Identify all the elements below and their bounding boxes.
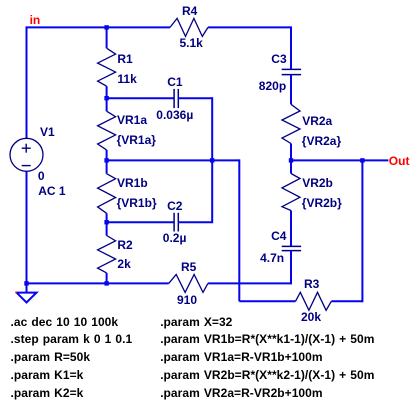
value {VR1b} (117, 197, 157, 209)
wire left rail upper (26, 26, 28, 138)
resistor R1 (98, 27, 116, 98)
value {VR1a} (117, 134, 156, 146)
wire mid node to bridge corner (107, 159, 240, 161)
directive left 2: .step param k 0 1 0.1 (11, 333, 133, 345)
wire left of resistor R3 (239, 300, 295, 302)
wire C1 node down to mid junction (211, 97, 213, 160)
label C2 (167, 200, 182, 212)
net label in (30, 14, 41, 26)
junction R1 / C1 (104, 96, 108, 100)
directive left 3: .param R=50k (11, 351, 91, 363)
label R1 (117, 53, 132, 65)
capacitor C1 (174, 89, 178, 108)
junction top rail / R1 (104, 25, 108, 29)
wire right of resistor R4 (208, 26, 291, 28)
value {VR2b} (302, 197, 342, 209)
resistor VR1b (98, 160, 116, 222)
value 910 (177, 294, 197, 306)
label C4 (271, 230, 286, 242)
resistor R5 (169, 274, 208, 292)
label V1 (40, 126, 55, 138)
wire right of resistor R3 (331, 300, 362, 302)
value AC 1 (38, 185, 65, 197)
label C3 (271, 53, 286, 65)
label R2 (117, 239, 132, 251)
label VR2b (302, 177, 333, 189)
resistor R4 (170, 18, 208, 36)
junction VR2a / VR2b (289, 158, 293, 162)
wire C2 left (107, 221, 175, 223)
junction ground (24, 281, 28, 285)
directive left 1: .ac dec 10 10 100k (11, 316, 119, 328)
voltage source V1 (10, 138, 43, 171)
wire C2 right (178, 221, 212, 223)
junction VR1a / VR1b (104, 158, 108, 162)
resistor VR1a (98, 98, 116, 160)
label VR1a (117, 114, 147, 126)
value 20k (301, 311, 321, 323)
wire left of resistor R5 (27, 282, 169, 284)
value 5.1k (180, 37, 203, 49)
label VR1b (117, 177, 148, 189)
directive right 2: .param VR1b=R*(X**k1-1)/(X-1) + 50m (160, 333, 374, 345)
value 2k (117, 258, 130, 270)
wire left rail lower (26, 171, 28, 283)
wire C2 node up to mid junction (211, 160, 213, 223)
wire bridge vertical (238, 159, 240, 301)
wire Out node (291, 159, 388, 161)
wire left of resistor R4 (27, 26, 171, 28)
wire right of resistor R5 (208, 282, 291, 284)
directive left 5: .param K2=k (11, 387, 84, 399)
value 4.7n (260, 252, 284, 264)
capacitor C4 (282, 246, 301, 250)
value 820p (259, 80, 286, 92)
label R4 (182, 5, 197, 17)
label C1 (167, 76, 182, 88)
directive right 5: .param VR2a=R-VR2b+100m (160, 387, 322, 399)
wire C4 down to bottom rail (290, 251, 292, 285)
capacitor C3 (282, 69, 301, 74)
net label Out (389, 155, 410, 167)
wire C1 left (107, 97, 175, 99)
label R5 (181, 261, 196, 273)
directive right 1: .param X=32 (160, 316, 232, 328)
junction R3 / Out (360, 158, 364, 162)
ground (17, 283, 37, 302)
value {VR2a} (302, 135, 341, 147)
wire R3 up to Out (361, 160, 363, 302)
directive right 4: .param VR2b=R*(X**k2-1)/(X-1) + 50m (160, 369, 374, 381)
wire top rail down to C3 (290, 26, 292, 69)
value 0 (38, 170, 45, 182)
label VR2a (302, 115, 332, 127)
value 0.2u (163, 232, 187, 244)
value 0.036u (156, 109, 193, 121)
junction C1-C2 node / bridge (210, 158, 214, 162)
wire C1 right (178, 97, 212, 99)
directive right 3: .param VR1a=R-VR1b+100m (160, 351, 322, 363)
value 11k (117, 73, 136, 85)
capacitor C2 (174, 213, 178, 232)
resistor VR2b with leads (282, 160, 300, 246)
directive left 4: .param K1=k (11, 369, 84, 381)
junction R2 / bottom rail (104, 281, 108, 285)
label R3 (304, 278, 319, 290)
resistor R2 (98, 222, 116, 283)
resistor VR2a with leads (282, 75, 300, 161)
ground red mark (15, 292, 17, 294)
resistor R3 (296, 292, 332, 310)
junction VR1b / C2 (104, 220, 108, 224)
